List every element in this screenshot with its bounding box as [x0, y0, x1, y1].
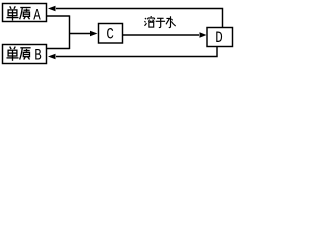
glyph 单 in box A [7, 6, 19, 20]
letter D in box D [215, 30, 222, 48]
box 单质A [3, 4, 47, 22]
wire B output [47, 48, 70, 50]
glyph 单 in box B [7, 47, 19, 61]
wire A output [47, 15, 70, 17]
box D [207, 28, 233, 47]
svg-text:D: D [215, 30, 222, 48]
letter B in box B [34, 47, 42, 65]
wire D top feedback [56, 9, 223, 28]
label 于 [156, 18, 165, 27]
svg-text:A: A [33, 7, 41, 25]
label 水 [166, 16, 176, 27]
wire trunk vertical [69, 15, 71, 49]
svg-text:B: B [34, 47, 42, 65]
letter C in box C [106, 26, 113, 44]
wire trunk to C [70, 33, 92, 35]
glyph 质 in box A [20, 8, 31, 20]
box 单质B [3, 45, 47, 64]
wire C to D [123, 34, 200, 36]
arrowhead into B (feedback) [48, 54, 56, 60]
arrowhead into A (feedback) [48, 6, 56, 12]
letter A in box A [33, 7, 41, 25]
glyph 质 in box B [20, 48, 31, 60]
label 溶 [144, 16, 154, 27]
svg-text:C: C [106, 26, 113, 44]
arrowhead into C [90, 31, 98, 37]
arrowhead into D [200, 32, 207, 37]
box C [99, 24, 123, 44]
wire D bottom feedback [56, 47, 217, 57]
